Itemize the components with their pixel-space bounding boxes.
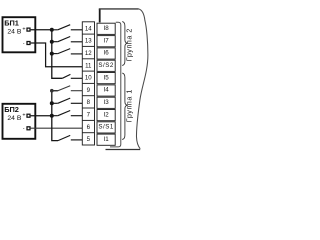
signal labels [98,25,113,143]
terminal numbers 14..5 [85,25,92,143]
wire BP2 plus to bus B [31,115,52,117]
device outline: curved right edge (torn/cut side) [136,9,147,149]
device outline: top-left corner of controller body [99,9,148,150]
svg-text:I7: I7 [104,37,110,44]
bus B (group 1, from BP2 plus) [52,91,58,141]
device outline: bottom edge [106,149,141,151]
terminal block: numbers column cells (terminals 14..5) [82,22,94,145]
svg-text:24 В: 24 В [7,115,21,122]
brace group 2 (terminals 14-11) [122,22,128,66]
power supply BP1 [3,17,36,52]
switch S14 (input I8) [52,25,83,30]
brace group 1 (terminals 10-5) [122,73,128,139]
svg-text:+: + [22,113,25,119]
bus A (group 2, from BP1 plus) [52,30,63,79]
svg-text:I3: I3 [104,99,110,106]
switch S5 (input I1) [58,135,82,140]
svg-text:10: 10 [85,75,92,82]
svg-text:I1: I1 [104,136,110,143]
switch S7 (input I2) [52,111,83,116]
terminal square BP1 minus [27,42,30,45]
svg-text:13: 13 [85,38,92,45]
power supply BP2 [3,104,36,139]
svg-text:I5: I5 [104,74,110,81]
svg-text:БП1: БП1 [4,18,19,27]
svg-text:БП2: БП2 [4,105,19,114]
switch S13 (input I7) [52,37,83,42]
signal boxes I8..I1 [97,23,115,145]
svg-text:I6: I6 [104,50,110,57]
terminal square BP2 plus [27,114,30,117]
svg-text:I4: I4 [104,87,110,94]
wire BP1 plus to bus A [31,29,52,31]
svg-text:Группа 2: Группа 2 [125,28,134,61]
svg-text:14: 14 [85,25,92,32]
svg-text:12: 12 [85,50,92,57]
svg-text:-: - [23,41,25,47]
terminal square BP2 minus [27,127,30,130]
svg-text:S/S1: S/S1 [98,124,113,131]
svg-text:+: + [22,26,25,32]
switch S12 (input I6) [52,49,83,54]
wire BP2 minus to S/S1 (terminal 6) [31,127,83,129]
svg-text:11: 11 [85,62,92,69]
svg-text:24 В: 24 В [7,28,21,35]
switch S8 (input I3) [52,98,83,103]
terminal strip side outline (bracket right of signal boxes) [110,22,121,147]
terminal square BP1 plus [27,28,30,31]
svg-text:S/S2: S/S2 [98,62,113,69]
svg-text:Группа 1: Группа 1 [125,89,134,122]
svg-text:I2: I2 [104,111,110,118]
svg-text:-: - [23,126,25,132]
wire BP1 minus to S/S2 (terminal 11) [31,43,83,67]
switch S9 (input I4) [52,86,83,91]
junction dots [50,28,54,118]
switch S10 (input I5) [62,74,82,78]
svg-text:I8: I8 [104,25,110,32]
